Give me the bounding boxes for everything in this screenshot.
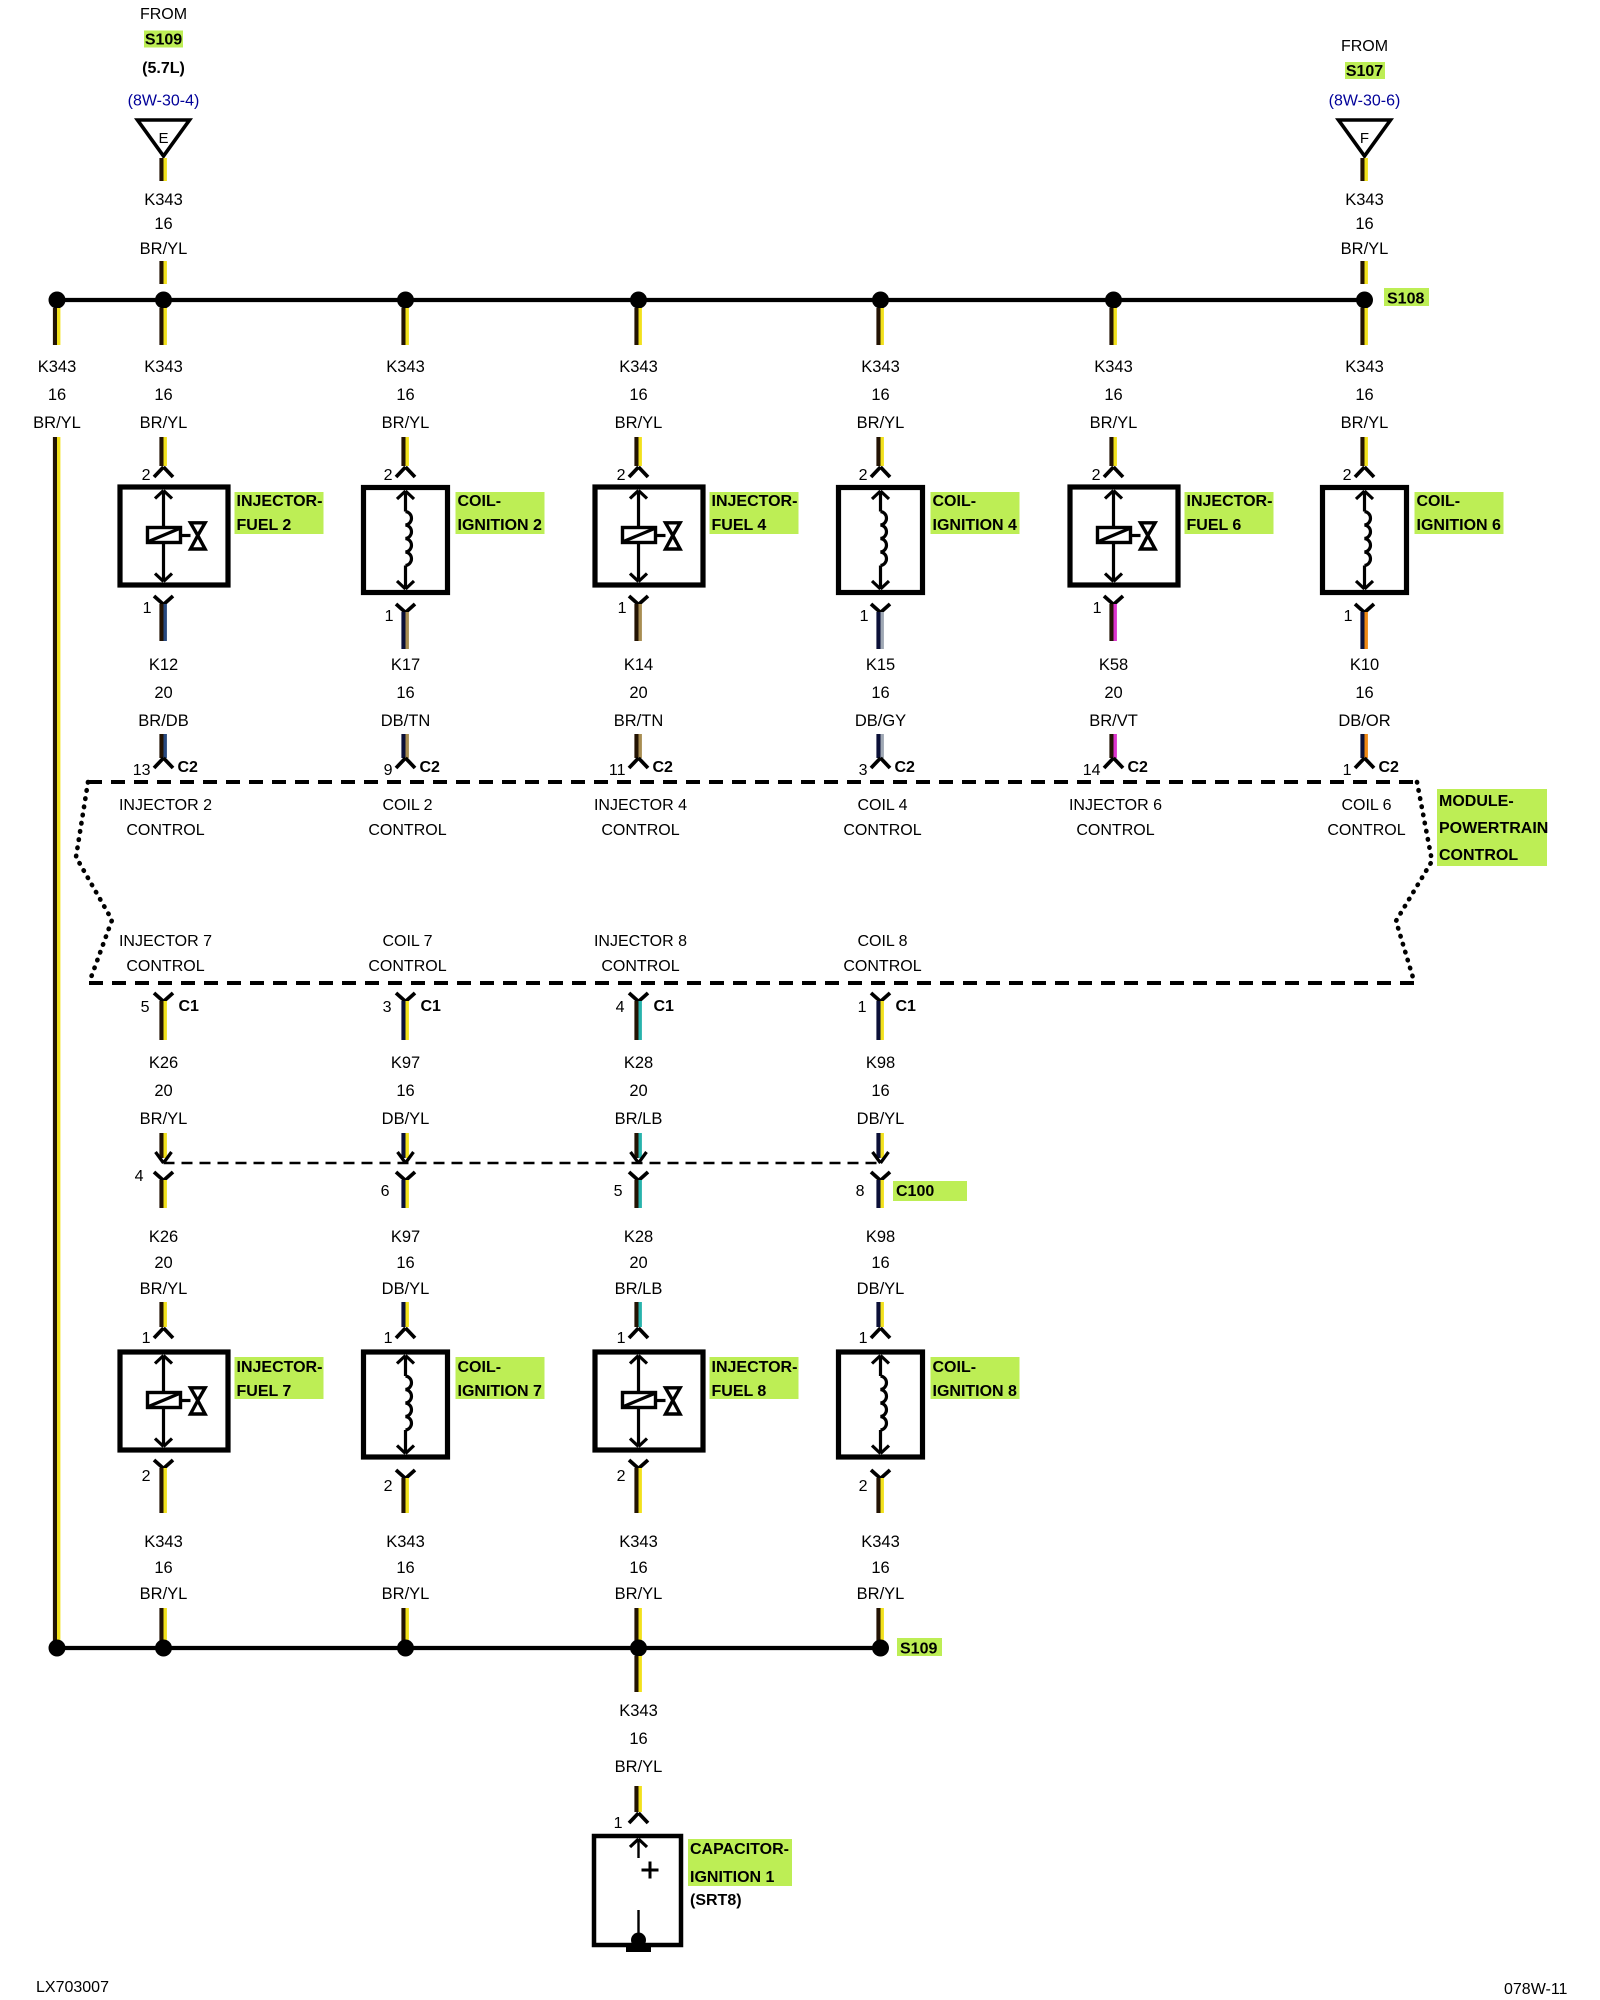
label COIL-IGNITION 6 [1415,492,1504,534]
ignition coil IGNITION 6 [1323,488,1407,593]
svg-text:16: 16 [154,215,172,233]
svg-text:14: 14 [1083,762,1101,779]
wire K343 above pin 2 col3 [634,437,638,466]
C100 connector Y col4 [871,1172,881,1181]
svg-text:CONTROL: CONTROL [1076,822,1154,839]
svg-text:K343: K343 [1345,358,1384,376]
svg-text:16: 16 [1355,684,1373,702]
C100 connector Y col3 [629,1172,639,1181]
svg-text:S109: S109 [900,1641,937,1658]
svg-text:20: 20 [154,1082,172,1100]
pin 1 connector of FUEL 8 [629,1328,639,1338]
svg-text:5: 5 [614,1183,623,1200]
wire K14 BR/TN below pin 1 col3 [634,604,638,641]
svg-text:16: 16 [396,386,414,404]
svg-text:K343: K343 [1094,358,1133,376]
svg-text:BR/YL: BR/YL [1341,414,1389,432]
junction dot S109 at x=163.5 [155,1640,172,1657]
svg-text:20: 20 [629,684,647,702]
PCM dashed outline bottom [89,981,1414,985]
connector C100 dashed line [164,1162,881,1165]
wire K97 DB/YL below pin 3 C1 [401,1001,405,1040]
PCM connector pin 5 C1 [154,993,164,1002]
svg-text:K58: K58 [1099,656,1128,674]
svg-text:DB/YL: DB/YL [382,1110,430,1128]
svg-text:1: 1 [614,1815,623,1832]
svg-text:3: 3 [383,999,392,1016]
svg-text:BR/LB: BR/LB [615,1280,663,1298]
junction dot S109 at x=57 [49,1640,66,1657]
pin 2 connector of FUEL 6 [1104,467,1114,477]
wire K17 DB/TN below pin 1 col2 [401,612,405,649]
svg-text:BR/LB: BR/LB [615,1110,663,1128]
ignition coil IGNITION 7 [364,1352,448,1457]
svg-text:COIL-: COIL- [1417,493,1461,510]
label COIL-IGNITION 4 [931,492,1020,534]
wire K58 BR/VT below pin 1 col5 [1109,604,1113,641]
wire K26 above pin 1 of FUEL 7 [159,1302,163,1327]
svg-text:C1: C1 [421,998,442,1015]
PCM connector pin 14 C2 [1104,758,1114,768]
pin 2 connector of IGNITION 4 [871,467,881,477]
wire K343 above pin 2 col6 [1360,437,1364,466]
svg-text:COIL 8: COIL 8 [857,933,907,950]
pin 2 connector of FUEL 8 [629,1460,639,1469]
svg-text:C1: C1 [654,998,675,1015]
svg-text:20: 20 [629,1254,647,1272]
svg-text:INJECTOR-: INJECTOR- [712,493,798,510]
wire K343 below pin 2 col3 [634,1468,638,1513]
pin 2 connector of FUEL 2 [154,467,164,477]
C100 connector arrow col3 [631,1152,639,1163]
svg-text:3: 3 [859,762,868,779]
svg-text:2: 2 [1343,467,1352,484]
svg-text:F: F [1360,130,1369,147]
svg-text:20: 20 [154,684,172,702]
splice bus S109 horizontal wire [57,1646,881,1650]
svg-text:9: 9 [384,762,393,779]
C100 connector Y col2 [396,1172,406,1181]
svg-text:COIL 2: COIL 2 [382,797,432,814]
svg-text:16: 16 [871,1254,889,1272]
svg-text:CONTROL: CONTROL [126,958,204,975]
svg-text:K343: K343 [386,358,425,376]
svg-text:DB/YL: DB/YL [857,1280,905,1298]
wire K97 into connector C100 [401,1133,405,1158]
svg-text:BR/YL: BR/YL [140,1110,188,1128]
svg-text:COIL-: COIL- [458,493,502,510]
svg-text:CONTROL: CONTROL [601,958,679,975]
svg-text:2: 2 [617,467,626,484]
label COIL-IGNITION 2 [456,492,545,534]
svg-text:1: 1 [617,1330,626,1347]
svg-text:(8W-30-6): (8W-30-6) [1329,93,1401,110]
wire K98 below C100 col4 [876,1180,880,1208]
svg-text:2: 2 [142,467,151,484]
label INJECTOR-FUEL 2 [235,492,324,534]
svg-text:1: 1 [618,600,627,617]
svg-text:FUEL 6: FUEL 6 [1187,517,1242,534]
pin 2 connector of FUEL 4 [629,467,639,477]
svg-text:BR/YL: BR/YL [615,1758,663,1776]
wire K17 above PCM pin 9 C2 [401,734,405,758]
PCM connector pin 13 C2 [154,758,164,768]
svg-text:16: 16 [48,386,66,404]
C100 connector arrow col1 [156,1152,164,1163]
wire K10 DB/OR below pin 1 col6 [1360,612,1364,649]
junction dot S108 at x=880.5 [872,292,889,309]
svg-text:16: 16 [871,386,889,404]
svg-text:BR/YL: BR/YL [382,1585,430,1603]
PCM connector pin 4 C1 [629,993,639,1002]
svg-text:FUEL 7: FUEL 7 [237,1383,292,1400]
wire K12 above PCM pin 13 C2 [159,734,163,758]
PCM dotted outline right edge [1396,782,1432,981]
svg-text:DB/YL: DB/YL [857,1110,905,1128]
svg-text:FUEL 2: FUEL 2 [237,517,292,534]
svg-text:1: 1 [1093,600,1102,617]
svg-text:K343: K343 [861,358,900,376]
wire K343 below bus S108 col4 [876,308,880,345]
junction dot S108 at x=1364.5 [1356,292,1373,309]
svg-text:16: 16 [1355,386,1373,404]
injector FUEL 4 [595,487,703,585]
svg-text:CONTROL: CONTROL [1439,847,1518,864]
wire K343 above pin 2 col4 [876,437,880,466]
svg-text:K343: K343 [144,1533,183,1551]
svg-text:IGNITION 7: IGNITION 7 [458,1383,543,1400]
capacitor plus sign [642,1869,659,1872]
svg-text:C1: C1 [896,998,917,1015]
wire K28 below C100 col3 [634,1180,638,1208]
svg-text:16: 16 [396,684,414,702]
wire K343 left rail down to bus S109 [53,437,57,1646]
svg-text:DB/YL: DB/YL [382,1280,430,1298]
pin 1 connector of capacitor [629,1813,639,1823]
wire K26 BR/YL below pin 5 C1 [159,1001,163,1040]
module-powertrain control PCM dashed outline top [88,780,1417,784]
pin 2 connector of IGNITION 2 [396,467,406,477]
pin 1 connector of IGNITION 7 [396,1328,406,1338]
wire K343 above pin 2 col2 [401,437,405,466]
injector FUEL 8 [595,1352,703,1450]
wire K343 below pin 2 col2 [401,1478,405,1513]
svg-text:K343: K343 [38,358,77,376]
wire K15 above PCM pin 3 C2 [876,734,880,758]
svg-text:16: 16 [871,1082,889,1100]
svg-text:1: 1 [1343,762,1352,779]
ignition coil IGNITION 2 [364,488,448,593]
svg-text:K343: K343 [619,1702,658,1720]
wire K343 above bus S109 col3 [634,1608,638,1645]
pin 2 connector of FUEL 7 [154,1460,164,1469]
svg-text:C2: C2 [653,759,674,776]
wire K343 col6 above bus S108 [1360,261,1364,284]
off-page connector triangle E [138,120,190,156]
svg-text:BR/TN: BR/TN [614,712,664,730]
svg-text:K98: K98 [866,1228,895,1246]
wire K97 above pin 1 of IGNITION 7 [401,1302,405,1327]
wire K97 below C100 col2 [401,1180,405,1208]
svg-text:4: 4 [135,1168,144,1185]
svg-text:BR/YL: BR/YL [1090,414,1138,432]
wire K343 above capacitor pin 1 [634,1786,638,1812]
svg-text:INJECTOR-: INJECTOR- [1187,493,1273,510]
svg-text:16: 16 [396,1559,414,1577]
svg-text:COIL 7: COIL 7 [382,933,432,950]
pin 2 connector of IGNITION 7 [396,1470,406,1479]
svg-text:CONTROL: CONTROL [843,958,921,975]
wire K343 left rail below bus S108 [53,308,57,345]
svg-text:S108: S108 [1387,291,1424,308]
svg-text:2: 2 [859,467,868,484]
svg-text:20: 20 [154,1254,172,1272]
svg-text:16: 16 [871,1559,889,1577]
junction dot S108 at x=638.5 [630,292,647,309]
svg-text:BR/YL: BR/YL [615,414,663,432]
PCM connector pin 3 C1 [396,993,406,1002]
junction dot S109 at x=638.5 [630,1640,647,1657]
splice bus S108 horizontal wire [57,298,1365,302]
pin 1 connector of IGNITION 2 [396,604,406,613]
svg-text:INJECTOR 8: INJECTOR 8 [594,933,687,950]
pin 1 connector of IGNITION 4 [871,604,881,613]
svg-text:16: 16 [871,684,889,702]
wire K26 below C100 col1 [159,1180,163,1208]
label COIL-IGNITION 7 [456,1357,545,1399]
pin 2 connector of IGNITION 8 [871,1470,881,1479]
PCM connector pin 11 C2 [629,758,639,768]
svg-text:1: 1 [142,1330,151,1347]
svg-text:POWERTRAIN: POWERTRAIN [1439,820,1548,837]
svg-text:C2: C2 [895,759,916,776]
svg-text:DB/OR: DB/OR [1338,712,1390,730]
svg-text:BR/YL: BR/YL [857,1585,905,1603]
svg-text:S109: S109 [145,32,182,49]
svg-text:BR/YL: BR/YL [857,414,905,432]
pin 1 connector of FUEL 6 [1104,596,1114,605]
svg-text:BR/YL: BR/YL [615,1585,663,1603]
wire K98 above pin 1 of IGNITION 8 [876,1302,880,1327]
svg-text:COIL-: COIL- [458,1359,502,1376]
wire K58 above PCM pin 14 C2 [1109,734,1113,758]
pin 2 connector of IGNITION 6 [1355,467,1365,477]
svg-text:16: 16 [1355,215,1373,233]
wire K343 below bus S108 col2 [401,308,405,345]
svg-text:K12: K12 [149,656,178,674]
svg-text:INJECTOR 6: INJECTOR 6 [1069,797,1162,814]
svg-text:078W-11: 078W-11 [1504,1981,1568,1998]
wire K343 below bus S108 col5 [1109,308,1113,345]
pin 1 connector of FUEL 4 [629,596,639,605]
svg-text:K98: K98 [866,1054,895,1072]
wire K343 below triangle F [1360,158,1364,181]
wire K343 below bus S108 col1 [159,308,163,345]
svg-text:S107: S107 [1346,63,1383,80]
svg-text:2: 2 [617,1468,626,1485]
svg-text:K10: K10 [1350,656,1379,674]
svg-text:16: 16 [629,1559,647,1577]
svg-text:IGNITION 6: IGNITION 6 [1417,517,1502,534]
svg-text:INJECTOR-: INJECTOR- [712,1359,798,1376]
wire K343 above bus S109 col1 [159,1608,163,1645]
svg-text:CONTROL: CONTROL [126,822,204,839]
injector FUEL 7 [120,1352,228,1450]
wire K343 below bus S108 col3 [634,308,638,345]
svg-text:K14: K14 [624,656,653,674]
svg-text:1: 1 [385,608,394,625]
svg-text:IGNITION 2: IGNITION 2 [458,517,543,534]
svg-text:1: 1 [384,1330,393,1347]
C100 connector Y col1 [154,1172,164,1181]
svg-text:13: 13 [133,762,151,779]
svg-text:DB/GY: DB/GY [855,712,906,730]
svg-text:(5.7L): (5.7L) [142,60,185,77]
svg-text:K343: K343 [1345,191,1384,209]
svg-text:1: 1 [143,600,152,617]
svg-text:16: 16 [154,1559,172,1577]
svg-text:K15: K15 [866,656,895,674]
svg-text:2: 2 [142,1468,151,1485]
wire K343 above bus S109 col4 [876,1608,880,1645]
svg-text:C2: C2 [1128,759,1149,776]
wire K343 below pin 2 col4 [876,1478,880,1513]
PCM connector pin 3 C2 [871,758,881,768]
svg-text:16: 16 [629,386,647,404]
svg-text:C100: C100 [896,1183,934,1200]
svg-text:K343: K343 [619,358,658,376]
svg-text:5: 5 [141,999,150,1016]
svg-text:IGNITION 8: IGNITION 8 [933,1383,1018,1400]
svg-text:K28: K28 [624,1054,653,1072]
svg-text:DB/TN: DB/TN [381,712,431,730]
svg-text:K343: K343 [619,1533,658,1551]
capacitor case ground dot [631,1933,646,1948]
svg-text:BR/YL: BR/YL [140,414,188,432]
label S108 [1384,288,1429,306]
wire K98 into connector C100 [876,1133,880,1158]
svg-text:BR/YL: BR/YL [33,414,81,432]
svg-text:CONTROL: CONTROL [1327,822,1405,839]
svg-text:16: 16 [154,386,172,404]
ground symbol below capacitor [626,1947,651,1952]
wire K343 below pin 2 col1 [159,1468,163,1513]
svg-text:1: 1 [1344,608,1353,625]
svg-text:CONTROL: CONTROL [368,822,446,839]
svg-text:(SRT8): (SRT8) [690,1892,742,1909]
PCM dotted outline left edge [76,782,112,983]
svg-text:BR/YL: BR/YL [382,414,430,432]
svg-text:FUEL 8: FUEL 8 [712,1383,767,1400]
svg-text:K343: K343 [144,191,183,209]
off-page connector triangle F [1339,120,1391,156]
svg-text:COIL 4: COIL 4 [857,797,907,814]
svg-text:INJECTOR 2: INJECTOR 2 [119,797,212,814]
injector FUEL 6 [1070,487,1178,585]
wire K98 DB/YL below pin 1 C1 [876,1001,880,1040]
wire K15 DB/GY below pin 1 col4 [876,612,880,649]
label INJECTOR-FUEL 4 [710,492,799,534]
svg-text:1: 1 [859,1330,868,1347]
svg-text:K343: K343 [386,1533,425,1551]
svg-text:BR/YL: BR/YL [140,1585,188,1603]
svg-text:K26: K26 [149,1054,178,1072]
svg-text:6: 6 [381,1183,390,1200]
capacitor-ignition 1 box [594,1836,681,1945]
svg-text:BR/DB: BR/DB [138,712,188,730]
pin 1 connector of FUEL 2 [154,596,164,605]
svg-text:INJECTOR 7: INJECTOR 7 [119,933,212,950]
svg-text:INJECTOR 4: INJECTOR 4 [594,797,687,814]
svg-text:K26: K26 [149,1228,178,1246]
wire K28 BR/LB below pin 4 C1 [634,1001,638,1040]
wire K14 above PCM pin 11 C2 [634,734,638,758]
svg-text:FUEL 4: FUEL 4 [712,517,767,534]
svg-text:K343: K343 [861,1533,900,1551]
svg-text:BR/YL: BR/YL [140,240,188,258]
C100 connector arrow col2 [398,1152,406,1163]
wire K12 BR/DB below pin 1 col1 [159,604,163,641]
svg-text:E: E [158,130,168,147]
PCM connector pin 1 C1 [871,993,881,1002]
svg-text:K17: K17 [391,656,420,674]
svg-text:20: 20 [629,1082,647,1100]
svg-text:COIL 6: COIL 6 [1341,797,1391,814]
pin 1 connector of FUEL 7 [154,1328,164,1338]
svg-text:C1: C1 [179,998,200,1015]
svg-text:K97: K97 [391,1054,420,1072]
svg-text:C2: C2 [420,759,441,776]
junction dot S108 at x=1113.5 [1105,292,1122,309]
svg-text:IGNITION 4: IGNITION 4 [933,517,1018,534]
svg-text:FROM: FROM [140,6,187,23]
svg-text:CAPACITOR-: CAPACITOR- [690,1841,789,1858]
label S109 splice [897,1638,942,1656]
label INJECTOR-FUEL 8 [710,1357,799,1399]
svg-text:MODULE-: MODULE- [1439,793,1514,810]
svg-text:2: 2 [859,1478,868,1495]
svg-text:2: 2 [384,467,393,484]
svg-text:K343: K343 [144,358,183,376]
ignition coil IGNITION 4 [839,488,923,593]
svg-text:CONTROL: CONTROL [843,822,921,839]
svg-text:CONTROL: CONTROL [601,822,679,839]
svg-text:FROM: FROM [1341,38,1388,55]
C100 connector arrow col4 [873,1152,881,1163]
svg-text:BR/YL: BR/YL [1341,240,1389,258]
PCM connector pin 1 C2 [1355,758,1365,768]
wire K343 below triangle E [159,158,163,181]
svg-text:K97: K97 [391,1228,420,1246]
svg-text:20: 20 [1104,684,1122,702]
svg-text:1: 1 [860,608,869,625]
label CAPACITOR-IGNITION 1 (SRT8) [688,1839,792,1886]
wire K343 above bus S109 col2 [401,1608,405,1645]
wire K10 above PCM pin 1 C2 [1360,734,1364,758]
wire K343 below bus S109 [634,1656,638,1692]
capacitor internal bottom lead [637,1910,639,1940]
svg-text:8: 8 [856,1183,865,1200]
junction dot S108 at x=163.5 [155,292,172,309]
wire K28 into connector C100 [634,1133,638,1158]
svg-text:C2: C2 [1379,759,1400,776]
svg-text:CONTROL: CONTROL [368,958,446,975]
wire K343 above pin 2 col1 [159,437,163,466]
svg-text:4: 4 [616,999,625,1016]
svg-text:K28: K28 [624,1228,653,1246]
svg-text:16: 16 [396,1082,414,1100]
junction dot S108 at x=57 [49,292,66,309]
